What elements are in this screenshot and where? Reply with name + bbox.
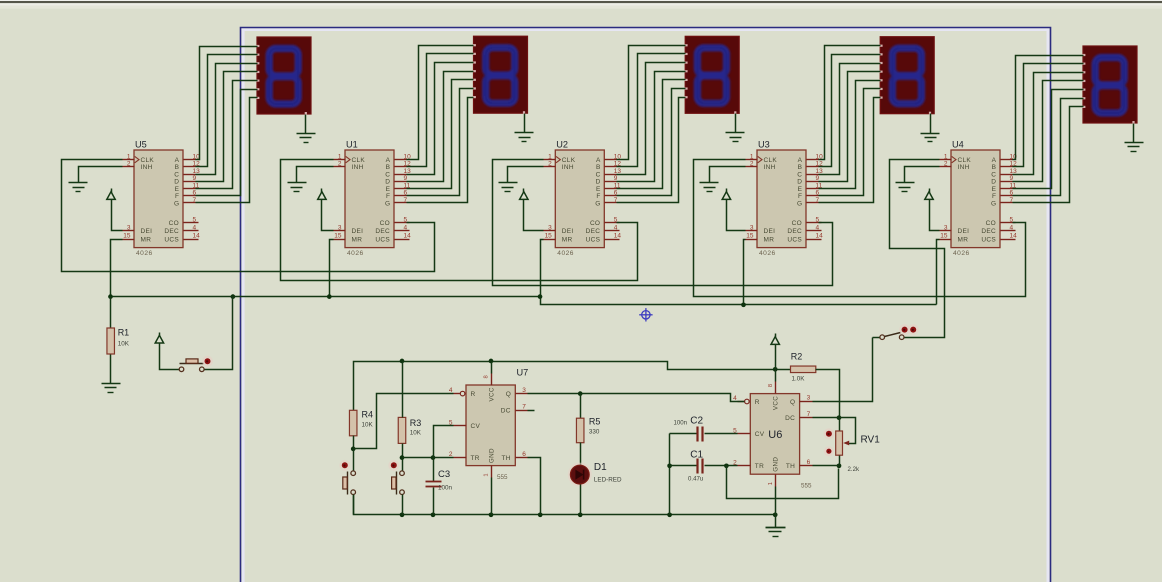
svg-text:R4: R4 [362,410,374,420]
svg-text:555: 555 [497,474,508,481]
svg-text:TR: TR [471,455,480,462]
wire bus U5 segment outputs A-G to display [196,47,258,203]
wire U3.CLK to U4.CO (carry chain) [694,160,1026,297]
ground symbol at U5.INH [69,183,88,192]
red state dots at clock switch [899,324,918,335]
svg-text:3: 3 [807,395,811,402]
svg-text:1: 1 [750,153,754,160]
power arrow at U4.DEI [925,189,933,203]
svg-text:B: B [992,164,996,171]
wire U5.DEI to power [112,203,123,231]
svg-text:CLK: CLK [958,157,972,164]
junction dots on reset net [108,294,746,307]
svg-text:RV1: RV1 [861,435,881,446]
wire D1 to rail [580,485,582,515]
wire U2.MR down to reset net [541,240,544,297]
svg-text:15: 15 [940,233,948,240]
svg-text:D1: D1 [594,462,607,473]
clock switch lever [885,333,901,337]
svg-text:R2: R2 [791,352,803,362]
svg-text:6: 6 [807,459,811,466]
svg-text:4026: 4026 [953,250,970,257]
wire U6.Q to clock switch [813,338,873,402]
svg-text:B: B [596,164,600,171]
wire U7.GND to rail [491,478,493,515]
svg-text:MR: MR [352,236,363,243]
svg-text:5: 5 [193,216,197,223]
svg-text:Q: Q [790,399,795,406]
wire U2.CLK to U3.CO (carry chain) [493,160,833,286]
junction dot CV/C3 on TR line [431,455,436,460]
svg-text:G: G [991,200,996,207]
wire bus U4 segment outputs A-G to display [1013,56,1084,203]
svg-text:2: 2 [338,161,342,168]
label C3 [438,469,453,492]
svg-text:F: F [175,193,179,200]
origin marker [639,308,652,321]
reset button actuator [180,359,204,364]
svg-text:UCS: UCS [586,236,601,243]
wire U7.VCC to rail [491,362,493,374]
svg-text:330: 330 [589,429,600,436]
power arrow above U6 [771,334,779,348]
svg-text:C: C [991,171,996,178]
wire U4.CLK from clock switch [890,160,945,338]
IC U1 (4026 decade counter) [334,140,412,258]
sheet border [241,28,1051,582]
ground under display 2 [515,114,534,142]
wire U7.R to R4 junction [354,394,454,449]
7-segment display DS2 [684,36,739,114]
wire U7.TH to rail [528,458,541,515]
svg-text:1: 1 [944,153,948,160]
wire VCC top rail [354,362,791,411]
svg-text:4026: 4026 [347,250,364,257]
button S3 (under R3) [392,458,405,495]
ground under display 4 [921,114,940,142]
resistor R2 [791,366,816,373]
svg-text:4: 4 [816,224,820,231]
svg-text:2: 2 [750,161,754,168]
IC U5 (4026 decade counter) [123,140,201,258]
ground symbol of oscillator [766,515,786,537]
wire U1.INH to ground [297,167,334,183]
svg-text:E: E [798,186,803,193]
wire capacitor riser [669,434,671,515]
junction dot DC node [837,415,842,420]
wire R1 to ground [110,355,112,384]
wire button S3 to rail [402,495,404,515]
svg-text:DC: DC [785,415,795,422]
svg-text:CLK: CLK [562,157,576,164]
svg-text:2: 2 [127,161,131,168]
svg-text:555: 555 [801,483,812,490]
wire C1 to U6.TR [705,465,738,467]
svg-text:DEC: DEC [981,228,996,235]
svg-text:1.0K: 1.0K [792,376,806,383]
LED D1 [568,463,592,487]
svg-text:14: 14 [816,233,824,240]
svg-text:DC: DC [501,408,511,415]
svg-text:15: 15 [334,233,342,240]
7-segment display DS3 [879,37,934,115]
7-segment display DS5 [256,37,311,115]
label C2 [673,416,703,427]
wire DC node to RV1 [839,418,841,432]
svg-text:A: A [798,157,803,164]
wire bus U3 segment outputs A-G to display [819,46,881,203]
svg-text:4: 4 [404,224,408,231]
svg-text:CO: CO [590,220,600,227]
svg-text:INH: INH [352,164,364,171]
wire U6.VCC stub to rail [775,370,777,382]
capacitor C3 [426,458,442,515]
power arrow at U5.DEI [107,189,115,203]
svg-text:UCS: UCS [375,236,390,243]
wire U5.MR down to reset net [111,240,123,297]
svg-text:E: E [992,186,997,193]
svg-text:C: C [174,171,179,178]
junction dot TH node [837,463,842,468]
svg-text:R: R [471,391,476,398]
wire bus U1 segment outputs A-G to display [407,46,474,203]
label C1 [688,450,704,483]
svg-text:B: B [798,164,802,171]
svg-text:R3: R3 [410,418,422,428]
svg-text:CLK: CLK [764,157,778,164]
svg-text:MR: MR [141,236,152,243]
IC U3 (4026 decade counter) [746,140,824,258]
svg-text:G: G [174,200,179,207]
svg-text:3: 3 [522,387,526,394]
label R4 [362,410,374,429]
svg-text:F: F [596,193,600,200]
wire U1.CLK to U2.CO (carry chain) [281,160,638,281]
svg-text:CO: CO [169,220,179,227]
wire bus U2 segment outputs A-G to display [617,46,686,203]
svg-text:4026: 4026 [136,250,153,257]
svg-text:E: E [175,186,180,193]
IC U7 (555 timer) [449,368,528,482]
wire U3.MR down to reset net [744,240,746,305]
power arrow at U1.DEI [318,189,326,203]
7-segment display DS1 [473,36,528,114]
svg-text:U4: U4 [952,140,964,150]
label RV1 [861,435,881,446]
ground under display 3 [726,114,745,142]
junction dot C1/TR/loop [724,463,729,468]
svg-text:4026: 4026 [759,250,776,257]
svg-text:U7: U7 [517,368,529,378]
svg-text:15: 15 [123,233,131,240]
svg-text:10K: 10K [118,341,130,348]
svg-text:14: 14 [193,233,201,240]
svg-text:F: F [386,193,390,200]
power arrow at U3.DEI [722,189,730,203]
wire U1.MR down to reset net [330,240,334,297]
svg-text:10K: 10K [362,422,374,429]
resistor R3 [398,417,406,443]
wire to C2 [670,433,697,435]
svg-text:3: 3 [127,224,131,231]
svg-text:UCS: UCS [981,236,996,243]
svg-text:DEI: DEI [562,228,574,235]
sheet border halo [242,28,1050,582]
svg-text:D: D [991,179,996,186]
junction dot R3/TR/button [400,455,405,460]
junction dot C1 riser [667,463,672,468]
wire U3.INH to ground [710,167,746,183]
potentiometer RV1 wiper [840,418,856,446]
svg-text:DEI: DEI [764,228,776,235]
svg-text:U3: U3 [758,140,770,150]
svg-text:F: F [798,193,802,200]
svg-text:4: 4 [193,224,197,231]
svg-text:0.47u: 0.47u [688,476,703,483]
svg-text:Q: Q [506,391,511,398]
resistor R5 [576,418,584,443]
power arrow at U2.DEI [520,189,528,203]
svg-text:3: 3 [548,224,552,231]
svg-text:E: E [596,186,601,193]
svg-text:DEC: DEC [375,228,390,235]
power arrow at reset button [155,333,163,347]
capacitor C1 [698,459,703,474]
svg-text:14: 14 [1010,233,1018,240]
svg-text:UCS: UCS [787,236,802,243]
svg-text:14: 14 [404,233,412,240]
svg-text:DEC: DEC [164,228,179,235]
svg-text:D: D [385,179,390,186]
svg-text:2.2k: 2.2k [848,466,860,473]
svg-text:G: G [595,200,600,207]
svg-text:C: C [385,171,390,178]
wire Q to R5 [580,394,582,419]
svg-text:MR: MR [562,236,573,243]
svg-text:10K: 10K [410,430,422,437]
svg-text:CO: CO [986,220,996,227]
svg-text:8: 8 [484,375,490,378]
svg-text:TR: TR [755,463,764,470]
wire U6.GND to rail [775,487,777,515]
red state dot at reset button [202,356,213,367]
wire TR line U7 [403,457,454,459]
resistor R4 [349,410,357,436]
svg-text:CLK: CLK [141,157,155,164]
red state dot at button S2 [339,460,350,471]
wire RV1 to TH node [839,456,841,466]
label D1 [594,462,622,484]
svg-text:1: 1 [484,473,490,476]
button S2 (under R4) [343,449,356,495]
wire TR-TH loop under U6 [727,466,839,499]
wire R3 to TR junction [402,444,404,458]
svg-text:D: D [596,179,601,186]
svg-text:E: E [386,186,391,193]
svg-text:3: 3 [338,224,342,231]
wire R5 to D1 [580,443,582,466]
svg-text:4: 4 [1010,224,1014,231]
wire reset button to reset net [205,297,233,370]
window top edge [0,0,1162,9]
svg-text:DEI: DEI [141,228,153,235]
svg-text:INH: INH [958,164,970,171]
svg-text:3: 3 [750,224,754,231]
svg-text:INH: INH [764,164,776,171]
wire U1.DEI to power [322,203,334,231]
svg-text:GND: GND [773,457,780,472]
IC U2 (4026 decade counter) [544,140,622,258]
ground below R1 [102,384,121,393]
svg-text:100n: 100n [673,420,687,427]
wire U5.INH to ground [79,167,123,183]
wire U6.TH to node [813,465,840,467]
svg-text:A: A [175,157,180,164]
svg-text:U6: U6 [768,429,782,441]
svg-text:B: B [386,164,390,171]
svg-text:G: G [385,200,390,207]
svg-text:MR: MR [764,236,775,243]
svg-text:C: C [596,171,601,178]
svg-text:UCS: UCS [164,236,179,243]
junction dots on GND rail [400,512,778,517]
ground symbol at U1.INH [288,183,307,192]
wire U4.INH to ground [905,167,940,183]
label R2 [791,352,805,383]
svg-text:4: 4 [614,224,618,231]
svg-text:INH: INH [141,164,153,171]
ground under display 1 [297,115,316,143]
wire reset net horizontal run [111,297,937,305]
junction dot Q/R5 [578,391,583,396]
svg-text:CV: CV [471,423,481,430]
wire switch left to U6.Q riser [873,337,880,339]
svg-text:U1: U1 [346,140,358,150]
svg-text:7: 7 [522,404,526,411]
svg-text:LED-RED: LED-RED [594,477,622,484]
wire R2 to DC node [816,370,840,418]
svg-text:2: 2 [944,161,948,168]
wire U4.DEI to power [930,203,940,231]
ground symbol at U2.INH [499,183,518,192]
wire U5.CLK to U1.CO (carry chain) [62,160,435,272]
svg-text:D: D [174,179,179,186]
svg-text:1: 1 [768,482,774,485]
7-segment display DS4 [1082,46,1137,124]
wire button S2 to rail corner [353,495,355,515]
svg-text:CV: CV [755,431,765,438]
svg-text:8: 8 [768,384,774,387]
wire U7.DC stub [528,410,535,412]
wire U4.MR down to reset net [937,240,940,305]
IC U4 (4026 decade counter) [940,140,1018,258]
svg-text:U2: U2 [556,140,568,150]
wire U3.DEI to power [727,203,746,231]
svg-text:2: 2 [548,161,552,168]
wire R4 to junction [353,436,355,449]
svg-text:INH: INH [562,164,574,171]
svg-text:C1: C1 [690,450,703,461]
svg-text:14: 14 [614,233,622,240]
reset button contacts [179,367,204,372]
svg-text:C: C [797,171,802,178]
svg-text:VCC: VCC [488,387,495,401]
red dots at RV1 [824,428,835,456]
ground symbol at U4.INH [896,183,915,192]
wire power to U6 rail [775,348,777,370]
ground under display 5 [1125,124,1144,152]
svg-text:U5: U5 [135,140,147,150]
wire U2.DEI to power [524,203,544,231]
wire U7.CV to TR line [434,426,454,458]
wire C2 to U6.CV [705,433,738,435]
wire U2.INH to ground [508,167,544,183]
wire U7.Q to U6.R [528,394,745,402]
junction dot R4/button/R-pin [351,447,356,452]
svg-text:A: A [992,157,997,164]
svg-text:CO: CO [380,220,390,227]
svg-text:DEC: DEC [586,228,601,235]
svg-text:MR: MR [958,236,969,243]
svg-text:DEC: DEC [787,228,802,235]
svg-text:CO: CO [792,220,802,227]
label RV1 value [848,466,860,473]
svg-text:3: 3 [944,224,948,231]
svg-text:A: A [386,157,391,164]
IC U6 (555 timer) [733,382,812,490]
svg-text:B: B [175,164,179,171]
svg-text:D: D [797,179,802,186]
svg-text:1: 1 [548,153,552,160]
svg-text:1: 1 [338,153,342,160]
wire GND bottom rail [354,493,776,515]
label R3 [410,418,422,437]
wire to C1 [670,465,697,467]
svg-text:15: 15 [746,233,754,240]
label R5 [589,417,601,436]
label R1 [118,328,130,348]
wire power to reset button [160,347,180,370]
ground symbol at U3.INH [700,183,719,192]
wire R3 to rail [402,362,404,418]
wire U6.DC to node [813,417,840,419]
svg-text:C3: C3 [438,469,450,480]
svg-text:C2: C2 [690,416,703,427]
svg-text:6: 6 [522,451,526,458]
junction dots on VCC rail [400,359,778,372]
svg-text:VCC: VCC [773,396,780,410]
svg-text:GND: GND [488,448,495,463]
svg-text:15: 15 [545,233,553,240]
wire reset net to R1 [110,297,112,329]
svg-text:CLK: CLK [352,157,366,164]
svg-text:DEI: DEI [958,228,970,235]
svg-text:100n: 100n [438,485,453,492]
svg-text:F: F [992,193,996,200]
potentiometer RV1 body [836,431,843,455]
svg-text:R5: R5 [589,417,601,427]
svg-text:DEI: DEI [352,228,364,235]
capacitor C2 [698,427,703,442]
svg-text:A: A [596,157,601,164]
resistor R1 [107,328,115,354]
svg-text:TH: TH [502,455,511,462]
svg-text:1: 1 [127,153,131,160]
svg-text:R: R [755,399,760,406]
svg-text:7: 7 [807,411,811,418]
svg-text:TH: TH [786,463,795,470]
svg-text:G: G [797,200,802,207]
